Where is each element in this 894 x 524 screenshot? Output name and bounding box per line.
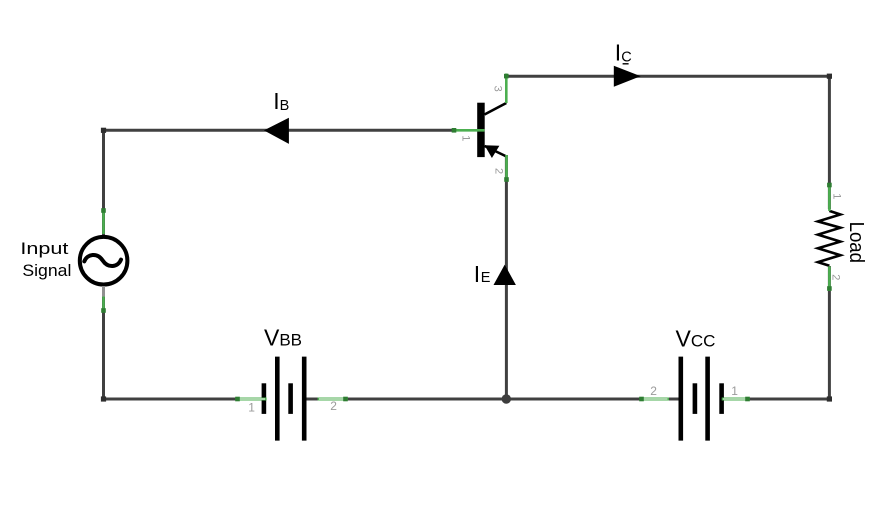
arrow IC — [614, 66, 641, 87]
wire collector-loop top — [506, 75, 829, 78]
arrow IE — [494, 265, 516, 285]
svg-text:I: I — [615, 40, 621, 66]
transistor Q1 emitter lead — [485, 146, 507, 157]
battery VBB pin 1 — [235, 398, 266, 401]
svg-text:Load: Load — [845, 222, 867, 263]
transistor Q1 collector pin 3 — [505, 74, 508, 104]
wire bottom middle segment — [303, 398, 683, 401]
AC source V1 circle — [80, 237, 128, 285]
svg-text:Signal: Signal — [22, 261, 71, 280]
resistor Load zigzag — [818, 211, 841, 266]
svg-text:E: E — [481, 270, 491, 286]
AC source pin 2 stub (gray) — [102, 286, 105, 297]
corner node top-right — [827, 74, 832, 79]
svg-text:B: B — [280, 98, 290, 114]
corner node bottom-right — [827, 396, 832, 401]
battery VBB plate 2 (long) — [275, 357, 280, 441]
svg-text:1: 1 — [248, 400, 255, 414]
junction node emitter-bottom — [502, 394, 511, 403]
svg-text:1: 1 — [731, 384, 738, 398]
wire right vertical lower — [828, 266, 831, 399]
wire bottom left segment — [104, 398, 263, 401]
underline under C — [623, 63, 629, 65]
svg-text:2: 2 — [493, 168, 505, 174]
corner node top-left — [101, 128, 106, 133]
battery VCC pin 2 — [640, 398, 670, 401]
battery VBB plate 4 (long) — [302, 357, 307, 441]
AC source pin 1 (top) — [102, 209, 105, 234]
battery VBB plate 1 (short) — [262, 383, 267, 414]
svg-text:2: 2 — [330, 399, 337, 413]
wire right vertical upper — [828, 75, 831, 209]
battery VCC plate 1 (long) — [678, 357, 683, 441]
corner node bottom-left — [101, 396, 106, 401]
svg-text:Input: Input — [20, 239, 68, 258]
wire bottom right segment — [721, 398, 830, 401]
svg-text:I: I — [474, 261, 480, 287]
transistor Q1 collector lead — [485, 103, 507, 115]
transistor Q1 emitter pin 2 — [505, 155, 508, 182]
arrow IB — [264, 118, 289, 144]
battery VCC plate 2 (short) — [693, 383, 698, 414]
transistor Q1 base pin 1 — [452, 129, 485, 132]
battery VCC plate 3 (long) — [705, 357, 710, 441]
resistor Load pin 2 — [828, 266, 831, 291]
wire emitter vertical — [505, 155, 508, 399]
AC source sine — [84, 255, 121, 266]
battery VBB plate 3 (short) — [288, 383, 293, 414]
svg-text:1: 1 — [460, 135, 472, 141]
svg-text:1: 1 — [831, 193, 843, 199]
svg-text:3: 3 — [492, 86, 504, 92]
transistor Q1 emitter arrow — [485, 145, 500, 158]
battery VCC pin 1 — [722, 398, 750, 401]
svg-text:2: 2 — [830, 274, 842, 280]
transistor Q1 base bar — [477, 103, 485, 157]
svg-text:2: 2 — [650, 384, 657, 398]
battery VCC plate 4 (short) — [719, 383, 724, 414]
wire left vertical — [102, 130, 105, 399]
AC source pin 2 (bottom) — [102, 297, 105, 310]
wire base-loop top — [104, 129, 453, 132]
resistor Load pin 1 — [828, 183, 831, 211]
battery VBB pin 2 — [318, 398, 348, 401]
